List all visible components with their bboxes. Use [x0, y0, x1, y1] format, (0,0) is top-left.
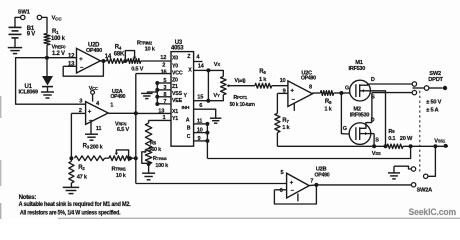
svg-text:8: 8	[163, 92, 166, 98]
node VX	[206, 62, 220, 73]
svg-text:R8: R8	[325, 99, 332, 105]
svg-text:3: 3	[79, 98, 82, 104]
svg-text:0.1: 0.1	[388, 136, 395, 142]
ground	[141, 93, 153, 98]
node	[123, 59, 127, 63]
switch SW2 DPDT	[412, 71, 443, 95]
svg-text:All resistors are 5%, 1/4 W un: All resistors are 5%, 1/4 W unless speci…	[20, 210, 121, 217]
pin 7 VEE	[157, 99, 171, 105]
svg-text:D: D	[371, 118, 375, 124]
svg-text:OP490: OP490	[110, 94, 125, 100]
wire	[70, 113, 72, 158]
svg-text:11: 11	[197, 118, 203, 124]
transistor M1 IRF530	[349, 60, 376, 101]
svg-text:R9: R9	[388, 129, 395, 135]
svg-text:VSS1: VSS1	[434, 139, 446, 145]
wire	[46, 45, 48, 58]
pin 11 A	[194, 118, 208, 124]
svg-text:6: 6	[280, 188, 283, 194]
svg-text:± 50 V: ± 50 V	[426, 99, 441, 105]
svg-text:Z0: Z0	[172, 77, 178, 83]
svg-text:B: B	[187, 126, 191, 132]
supply stub	[293, 103, 295, 111]
svg-text:SW2A: SW2A	[417, 187, 433, 193]
pin 1 output	[108, 103, 136, 114]
pin 13	[63, 62, 76, 68]
svg-text:10 k: 10 k	[116, 173, 127, 179]
pin 5	[280, 170, 283, 176]
svg-text:10 k: 10 k	[145, 46, 156, 52]
wire	[403, 144, 448, 148]
svg-text:6.5 V: 6.5 V	[117, 127, 129, 133]
svg-text:1 k: 1 k	[282, 125, 290, 131]
resistor R6	[255, 69, 272, 88]
node VCC	[52, 16, 63, 23]
pin 16 VCC	[136, 69, 171, 75]
svg-text:2: 2	[162, 63, 165, 69]
pin 6 INH	[194, 103, 216, 118]
ground	[210, 118, 222, 123]
resistor R7	[275, 113, 291, 132]
svg-text:INH: INH	[182, 105, 190, 111]
wire	[92, 94, 94, 101]
wire	[428, 146, 435, 176]
svg-text:X1: X1	[172, 109, 178, 115]
svg-text:200 k: 200 k	[90, 145, 104, 151]
pin 15 Y	[194, 94, 209, 100]
pin 10	[280, 78, 286, 84]
pin labels inside left	[172, 56, 183, 122]
svg-text:± 5 A: ± 5 A	[426, 107, 438, 113]
svg-text:4: 4	[196, 54, 200, 60]
node G	[343, 126, 347, 132]
wire	[272, 85, 288, 87]
pin labels inside right	[182, 54, 193, 140]
svg-text:1 k: 1 k	[259, 77, 267, 83]
reference diode U1 ICL8069	[19, 76, 54, 96]
wire	[429, 87, 443, 89]
op-amp U2C	[288, 70, 316, 106]
pin 14 X	[194, 63, 209, 70]
resistor R1	[44, 29, 66, 45]
pin 12	[68, 53, 75, 59]
pin 4	[96, 101, 100, 107]
wire	[14, 38, 16, 48]
op-amp U2D	[77, 42, 103, 73]
ground	[142, 173, 155, 180]
svg-text:ICL8069: ICL8069	[19, 90, 39, 96]
svg-text:10: 10	[280, 78, 286, 84]
wire	[147, 91, 158, 93]
svg-text:VEE: VEE	[172, 98, 183, 104]
wire	[208, 95, 223, 101]
label +-5A	[426, 107, 438, 113]
svg-text:3: 3	[163, 85, 166, 91]
wire	[100, 60, 106, 62]
svg-text:68K: 68K	[114, 51, 125, 57]
supply stub	[297, 194, 299, 202]
svg-text:C: C	[187, 134, 191, 140]
wire	[276, 133, 278, 147]
pin 5 Z0	[157, 78, 171, 84]
svg-text:20 W: 20 W	[400, 136, 413, 142]
node VREF0	[45, 44, 66, 59]
svg-text:1: 1	[110, 103, 113, 109]
svg-text:11: 11	[96, 126, 102, 132]
op-amp U2B	[287, 167, 330, 199]
svg-text:R4: R4	[115, 45, 122, 51]
svg-text:R5: R5	[150, 140, 157, 146]
svg-text:A: A	[186, 117, 190, 123]
pin 9 C	[194, 136, 208, 142]
svg-text:X0: X0	[172, 56, 178, 62]
resistor R4	[106, 45, 125, 64]
svg-text:OP490: OP490	[315, 172, 330, 178]
pin 8 VSS	[157, 92, 171, 98]
wire	[368, 83, 413, 85]
watermark	[409, 207, 457, 217]
svg-text:VSS: VSS	[172, 91, 183, 97]
wire	[334, 91, 344, 95]
svg-text:12: 12	[160, 55, 166, 61]
svg-text:OP490: OP490	[301, 76, 316, 82]
wire	[42, 17, 48, 34]
node VSS	[372, 151, 381, 157]
node	[128, 156, 138, 160]
wire	[373, 134, 375, 147]
svg-text:RTRM1: RTRM1	[112, 167, 127, 173]
svg-text:R7: R7	[282, 118, 289, 124]
svg-text:G: G	[343, 126, 347, 132]
resistor R2	[69, 158, 88, 187]
pin 12 X0	[160, 55, 166, 61]
svg-text:RTRM3: RTRM3	[153, 156, 168, 162]
wire	[136, 183, 287, 185]
svg-text:OP490: OP490	[86, 48, 102, 54]
svg-text:IRF9530: IRF9530	[350, 112, 370, 118]
wire	[135, 74, 137, 184]
pin 14	[101, 54, 111, 63]
potentiometer RPOT1	[221, 76, 255, 107]
ground	[8, 48, 22, 54]
trimmer RTRIM3	[142, 149, 169, 169]
terminal	[443, 86, 447, 90]
svg-text:10: 10	[197, 127, 203, 133]
svg-text:A suitable heat sink is requir: A suitable heat sink is required for M1 …	[19, 201, 131, 208]
wire	[155, 81, 159, 106]
svg-text:R2: R2	[78, 165, 85, 171]
node VY	[206, 93, 220, 103]
svg-text:9: 9	[198, 136, 201, 142]
ground	[85, 134, 98, 140]
svg-text:S: S	[375, 138, 379, 144]
wire	[46, 58, 48, 76]
transistor M2 IRF9530	[349, 107, 379, 145]
svg-text:50 k 10-turn: 50 k 10-turn	[230, 102, 255, 108]
node	[147, 162, 151, 173]
svg-text:R3: R3	[83, 143, 90, 149]
wire	[205, 122, 209, 159]
svg-text:16: 16	[161, 69, 167, 75]
wire	[372, 93, 412, 123]
wire	[277, 144, 387, 148]
node	[69, 156, 73, 160]
svg-text:5: 5	[280, 170, 283, 176]
node VRFN	[115, 111, 138, 133]
svg-text:4: 4	[96, 101, 100, 107]
svg-text:4053: 4053	[171, 45, 184, 51]
svg-text:7: 7	[163, 99, 166, 105]
resistor R3	[75, 143, 105, 160]
svg-text:VSS: VSS	[372, 151, 381, 157]
notes	[19, 194, 131, 217]
wire	[341, 93, 350, 134]
wire	[394, 166, 411, 169]
svg-text:47 k: 47 k	[77, 175, 88, 181]
svg-text:12: 12	[68, 53, 75, 59]
svg-text:Z1: Z1	[172, 84, 178, 90]
svg-text:0.5 V: 0.5 V	[131, 67, 143, 73]
scan edge artifacts	[1, 96, 460, 219]
svg-text:100 k: 100 k	[51, 36, 66, 42]
svg-text:9 V: 9 V	[27, 32, 36, 38]
svg-text:15: 15	[197, 94, 203, 100]
node G	[345, 85, 349, 91]
wire	[274, 185, 316, 204]
svg-text:VCC: VCC	[52, 16, 63, 23]
wire	[141, 60, 171, 62]
svg-text:8: 8	[309, 84, 312, 90]
switch SW1	[18, 10, 42, 20]
pin 9	[277, 89, 288, 95]
svg-text:IRF530: IRF530	[349, 66, 366, 72]
label +-50V	[426, 99, 441, 105]
wire	[47, 57, 77, 59]
wire	[16, 58, 86, 104]
wire	[207, 146, 410, 158]
wire	[63, 61, 103, 76]
wire	[309, 184, 411, 187]
svg-text:VREF0: VREF0	[52, 44, 67, 50]
pin 8	[309, 84, 312, 90]
wire	[313, 92, 321, 94]
node 0.5V	[131, 67, 143, 73]
pin 7 output	[310, 178, 318, 187]
wire	[148, 120, 150, 123]
switch SW2A	[411, 167, 432, 194]
wire	[15, 17, 21, 27]
wire	[370, 91, 385, 147]
wire	[393, 166, 395, 173]
svg-text:SeekIC.com: SeekIC.com	[409, 207, 457, 217]
trimmer RTRIM2	[125, 41, 155, 64]
svg-text:VX: VX	[214, 62, 221, 68]
svg-text:5: 5	[163, 78, 166, 84]
svg-text:SW1: SW1	[18, 10, 31, 16]
resistor R5	[145, 123, 162, 153]
svg-text:1.2 V: 1.2 V	[52, 51, 65, 57]
wire	[207, 70, 209, 100]
svg-text:Notes:: Notes:	[19, 194, 37, 201]
wire	[105, 157, 109, 159]
node Vadj	[234, 78, 246, 84]
pin 10 B	[194, 127, 208, 133]
resistor R8	[320, 91, 333, 113]
svg-text:R6: R6	[259, 69, 266, 75]
battery B1	[9, 26, 36, 38]
svg-text:DPDT: DPDT	[428, 77, 443, 83]
pin 2	[71, 108, 85, 114]
wire	[276, 93, 278, 113]
resistor R9	[387, 129, 413, 149]
supply stub + ground	[90, 122, 92, 134]
ground	[63, 187, 79, 193]
ground	[41, 92, 54, 98]
op-amp U2A	[86, 89, 126, 125]
svg-text:VY: VY	[213, 93, 220, 99]
svg-text:Y1: Y1	[172, 116, 178, 122]
pin 13 X1	[136, 108, 171, 114]
svg-text:6: 6	[199, 103, 202, 109]
pin 3	[79, 98, 82, 104]
pin 11	[96, 126, 102, 132]
svg-text:G: G	[345, 85, 349, 91]
svg-text:R1: R1	[52, 29, 59, 35]
pin 6	[274, 188, 286, 194]
analog switch U3 4053	[171, 40, 194, 146]
node VSS1	[433, 139, 447, 149]
pin 3 Z1	[157, 85, 171, 91]
svg-text:VCC: VCC	[172, 71, 183, 77]
node VCC	[89, 86, 98, 94]
wire	[208, 70, 223, 76]
svg-text:7: 7	[310, 178, 313, 184]
svg-text:Y0: Y0	[172, 64, 178, 70]
svg-text:D: D	[371, 77, 375, 83]
trimmer RTRIM1	[109, 150, 130, 179]
ground	[388, 173, 400, 179]
svg-text:V(adj): V(adj)	[234, 78, 246, 84]
mechanical link	[419, 91, 421, 174]
svg-text:100 k: 100 k	[155, 163, 169, 169]
pin 2 Y0	[162, 63, 165, 69]
svg-text:14: 14	[198, 63, 205, 69]
wire	[233, 85, 255, 87]
pin 4 Z	[194, 54, 203, 61]
svg-text:RPOT1: RPOT1	[233, 95, 247, 101]
pin 1 Y1	[149, 115, 171, 121]
svg-text:1 k: 1 k	[324, 106, 332, 112]
